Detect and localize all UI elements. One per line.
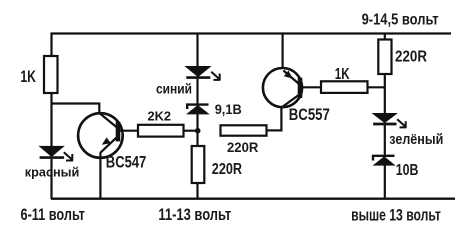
transistor Q1 emitter diagonal bbox=[100, 138, 116, 153]
LED D3 emission arrow bbox=[397, 119, 406, 127]
wire D2 to zener VD1 bbox=[196, 79, 198, 105]
svg-text:11-13 вольт: 11-13 вольт bbox=[158, 206, 231, 224]
wire Q1 base to R2 bbox=[120, 130, 139, 132]
wire R4 to Q2 collector bbox=[267, 129, 283, 131]
transistor Q2 BC557 circle bbox=[263, 68, 302, 107]
svg-text:BC547: BC547 bbox=[106, 152, 147, 171]
LED D1 cathode bar bbox=[40, 156, 65, 159]
zener VD2 triangle (apex up) bbox=[374, 157, 394, 165]
zener VD2 10B cathode bar with hook bbox=[373, 156, 395, 161]
wire D3 to zener VD2 bbox=[384, 125, 386, 156]
zener VD1 9,1B cathode bar with hook bbox=[187, 105, 208, 109]
LED D1 emission arrow bbox=[64, 152, 73, 160]
wire collector branch vertical bbox=[98, 103, 100, 115]
transistor Q2 emitter diagonal bbox=[283, 71, 298, 84]
svg-text:1K: 1K bbox=[335, 66, 350, 83]
wire bottom rail bbox=[51, 197, 455, 199]
wire zener VD2 to bottom rail bbox=[384, 165, 386, 199]
transistor Q2 emitter arrow (points to base) bbox=[284, 71, 293, 79]
resistor R1 1K body bbox=[44, 56, 58, 93]
wire Q2 collector vertical bbox=[280, 106, 282, 131]
svg-text:220R: 220R bbox=[212, 161, 242, 178]
wire Q2 emitter to top rail bbox=[282, 33, 284, 70]
svg-text:синий: синий bbox=[156, 80, 192, 96]
svg-text:220R: 220R bbox=[227, 139, 258, 155]
wire zener VD1 to node A bbox=[196, 114, 198, 147]
wire R3 to bottom rail bbox=[196, 183, 198, 199]
wire left column top (rail to R1) bbox=[50, 33, 52, 58]
svg-text:220R: 220R bbox=[395, 49, 427, 66]
LED D3 cathode bar bbox=[373, 123, 396, 126]
node A junction dot bbox=[195, 128, 201, 134]
wire left column bottom (LED to rail) bbox=[50, 159, 52, 199]
transistor Q2 base bar bbox=[298, 78, 303, 98]
resistor R5 1K body bbox=[321, 81, 368, 93]
transistor Q2 collector diagonal bbox=[282, 95, 300, 108]
wire top supply rail bbox=[51, 32, 451, 34]
wire R6 to LED D3 bbox=[384, 74, 386, 115]
svg-text:1K: 1K bbox=[20, 68, 36, 86]
resistor R2 2K2 body bbox=[138, 125, 184, 137]
svg-text:10В: 10В bbox=[396, 162, 419, 179]
resistor R3 220R vertical body bbox=[192, 146, 205, 183]
wire right column top (rail to R6) bbox=[384, 33, 386, 41]
svg-text:2K2: 2K2 bbox=[148, 110, 172, 124]
zener VD1 triangle (apex up) bbox=[188, 106, 208, 114]
transistor Q1 collector diagonal bbox=[99, 113, 117, 128]
wire left column mid (R1 to LED) bbox=[50, 93, 52, 148]
wire Q2 base to R5 bbox=[302, 86, 322, 88]
LED D2 cathode bar bbox=[186, 76, 210, 79]
wire R5 to right column bbox=[368, 86, 386, 88]
LED D2 blue triangle bbox=[187, 67, 210, 76]
LED D2 emission arrow bbox=[211, 72, 220, 80]
svg-text:выше 13 вольт: выше 13 вольт bbox=[351, 207, 441, 225]
wire R2 to node A bbox=[184, 130, 198, 132]
svg-text:9-14,5 вольт: 9-14,5 вольт bbox=[362, 12, 439, 29]
resistor R6 220R body bbox=[378, 40, 391, 75]
svg-text:9,1В: 9,1В bbox=[215, 101, 242, 117]
wire collector branch horizontal bbox=[51, 102, 100, 104]
transistor Q1 BC547 circle bbox=[78, 113, 123, 158]
resistor R4 220R horizontal body bbox=[221, 125, 267, 135]
wire Q1 emitter to bottom rail bbox=[99, 153, 101, 200]
svg-text:зелёный: зелёный bbox=[389, 131, 443, 148]
svg-text:6-11 вольт: 6-11 вольт bbox=[21, 206, 85, 224]
transistor Q1 emitter arrow bbox=[102, 137, 111, 144]
wire middle column top (rail to LED D2) bbox=[196, 33, 198, 69]
transistor Q1 base bar bbox=[116, 122, 121, 142]
LED D1 red triangle bbox=[41, 147, 63, 156]
svg-text:BC557: BC557 bbox=[289, 105, 330, 124]
LED D3 green triangle bbox=[374, 114, 396, 122]
